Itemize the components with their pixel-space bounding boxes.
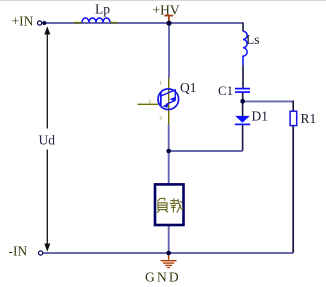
junction at C1/D1 node [240, 99, 245, 104]
load box (负载) [155, 184, 184, 225]
ground symbol GND [161, 254, 177, 268]
transistor Q1 [138, 78, 179, 125]
svg-text:D1: D1 [252, 109, 269, 124]
wire segment: D1 cathode down to corner at Q1 node level [242, 124, 244, 150]
wire segment: corner into R1 top lead [292, 101, 294, 112]
junction at +HV [166, 21, 171, 26]
top border faint line [0, 0, 326, 1]
svg-text:+HV: +HV [153, 3, 180, 18]
Q1 pin through line [168, 78, 170, 125]
Q1 emitter diagonal with arrow [166, 100, 175, 104]
svg-text:C1: C1 [218, 83, 233, 98]
Q1 circle [158, 89, 179, 110]
Q1 right bar [174, 89, 176, 100]
wire segment: corner above Ls [242, 23, 244, 32]
Q1 collector diagonal [161, 90, 176, 96]
load text 负 [157, 198, 168, 212]
wire segment: C1 bottom plate to node [242, 92, 244, 101]
resistor R1 [290, 111, 297, 125]
wire: C1 bottom node horizontal to R1 branch [243, 100, 294, 102]
wire: top horizontal net from +IN to right corner [44, 22, 243, 24]
terminal -IN [39, 251, 43, 255]
Ud arrowhead up [44, 26, 50, 34]
wire: +HV vertical down to Q1 top pin [168, 23, 170, 78]
Q1 gate pin [138, 103, 159, 105]
terminal +IN [38, 21, 42, 25]
svg-text:GND: GND [145, 270, 181, 285]
inductor Ls [243, 31, 247, 65]
wire segment: Ls bottom to C1 top plate [242, 66, 244, 89]
load text 载 [170, 198, 183, 212]
svg-text:-IN: -IN [9, 244, 28, 259]
power port +HV [165, 16, 174, 22]
capacitor C1 [235, 89, 250, 93]
Ud arrowhead down [44, 244, 50, 252]
svg-text:Lp: Lp [95, 2, 110, 17]
junction below Q1 [166, 149, 171, 154]
wire: bottom horizontal net from -IN to right side [43, 252, 293, 254]
inductor Lp [74, 18, 118, 23]
Ud measurement arrow lower segment [46, 150, 48, 245]
Q1 horizontal arrow [171, 98, 175, 100]
wire segment: node down to D1 anode [242, 101, 244, 116]
wire: Q1 bottom pin to load box top [168, 125, 170, 185]
svg-text:Ls: Ls [246, 32, 260, 47]
wire: load box bottom to ground net [168, 225, 170, 253]
wire: node below Q1 horizontal to D1 bottom [169, 150, 243, 152]
junction at +IN [42, 21, 46, 25]
svg-text:R1: R1 [301, 111, 317, 126]
svg-text:Ud: Ud [39, 133, 56, 148]
svg-text:Q1: Q1 [180, 80, 197, 95]
diode D1 [235, 116, 250, 125]
svg-text:1: 1 [160, 82, 163, 87]
svg-text:3: 3 [160, 117, 163, 122]
svg-text:+IN: +IN [12, 14, 34, 29]
Q1 gate bar [160, 93, 162, 107]
junction at ground [166, 251, 171, 256]
Ud measurement arrow upper segment [46, 34, 48, 129]
wire segment: R1 bottom lead down to bottom net [292, 126, 294, 253]
